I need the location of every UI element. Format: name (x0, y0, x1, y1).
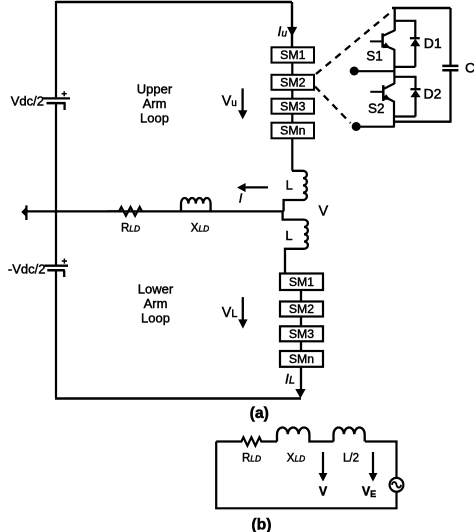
svg-text:SMn: SMn (289, 352, 314, 366)
svg-text:Iu: Iu (278, 23, 288, 39)
svg-text:SM3: SM3 (289, 327, 314, 341)
svg-text:RLD: RLD (242, 452, 261, 464)
svg-text:SM3: SM3 (280, 99, 305, 113)
svg-text:D1: D1 (424, 35, 442, 51)
svg-text:VL: VL (222, 305, 238, 321)
svg-text:XLD: XLD (287, 452, 305, 464)
svg-text:L: L (285, 228, 292, 243)
svg-text:V: V (318, 203, 328, 219)
svg-text:Arm: Arm (143, 96, 167, 111)
svg-text:IL: IL (285, 370, 295, 386)
svg-text:Arm: Arm (144, 296, 168, 311)
svg-text:S1: S1 (366, 49, 383, 64)
svg-text:S2: S2 (368, 101, 385, 116)
svg-text:C: C (465, 59, 474, 75)
svg-text:VE: VE (362, 485, 376, 500)
svg-text:Loop: Loop (140, 111, 169, 126)
svg-text:(a): (a) (250, 405, 269, 422)
svg-text:-Vdc/2: -Vdc/2 (8, 262, 46, 277)
svg-text:Loop: Loop (141, 311, 170, 326)
svg-text:SM1: SM1 (289, 275, 314, 289)
svg-text:SMn: SMn (280, 124, 305, 138)
svg-text:V: V (319, 485, 328, 499)
svg-text:Lower: Lower (138, 282, 174, 297)
svg-text:RLD: RLD (121, 222, 140, 234)
svg-text:SM2: SM2 (280, 76, 305, 90)
svg-text:(b): (b) (251, 516, 271, 532)
svg-text:SM1: SM1 (280, 48, 305, 62)
svg-text:XLD: XLD (191, 222, 209, 234)
svg-text:D2: D2 (424, 86, 442, 102)
svg-text:I: I (239, 190, 243, 205)
svg-text:SM2: SM2 (289, 302, 314, 316)
svg-text:Vdc/2: Vdc/2 (11, 94, 44, 109)
svg-text:Vu: Vu (222, 94, 237, 110)
svg-text:Upper: Upper (137, 82, 173, 97)
svg-text:L: L (286, 178, 293, 193)
svg-text:L/2: L/2 (343, 452, 359, 464)
